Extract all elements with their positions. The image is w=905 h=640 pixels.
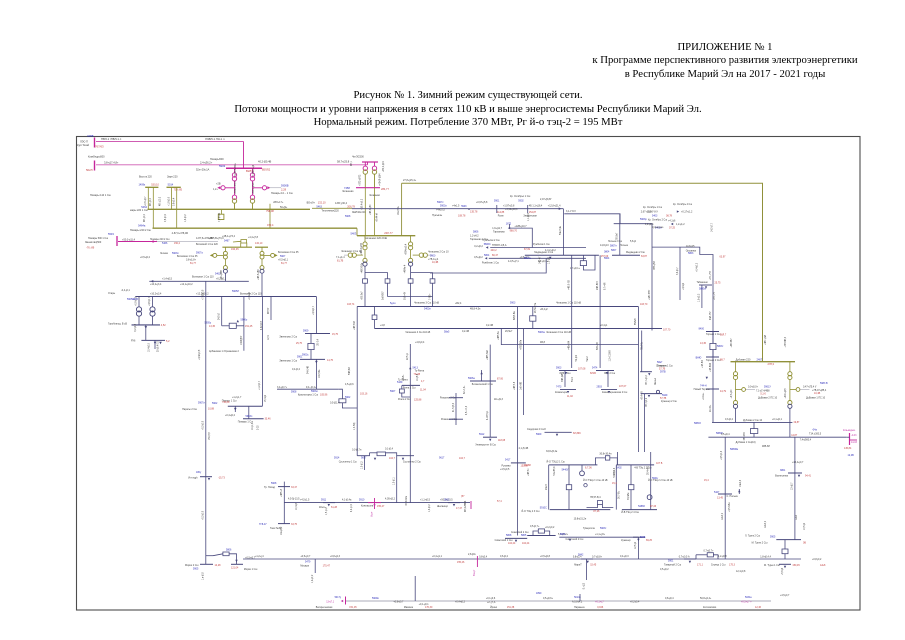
wire load W — [364, 456, 366, 470]
svg-text:0,7+j0,8+: 0,7+j0,8+ — [592, 555, 603, 558]
bus Морки-1 — [231, 563, 243, 565]
wire link 296 — [388, 296, 433, 298]
svg-text:94,41: 94,41 — [805, 474, 812, 477]
svg-text:Медведево 2 Сш: Медведево 2 Сш — [626, 251, 645, 254]
svg-text:ДуВовая 1 ПС 10: ДуВовая 1 ПС 10 — [806, 396, 826, 399]
svg-text:41,5-j5,4: 41,5-j5,4 — [453, 402, 455, 412]
arrow — [559, 207, 562, 210]
svg-text:14,75: 14,75 — [327, 359, 334, 362]
svg-text:+4,5-j0,5: +4,5-j0,5 — [500, 468, 510, 471]
svg-text:5903а: 5903а — [538, 331, 545, 334]
svg-text:0,8+j0,4: 0,8+j0,4 — [665, 597, 674, 600]
svg-text:12н3: 12н3 — [796, 514, 798, 520]
arrow load — [208, 478, 210, 480]
svg-text:1,9+j2,2: 1,9+j2,2 — [699, 293, 701, 302]
title block Рисунок — [213, 89, 723, 130]
svg-text:+4Л7-В57: +4Л7-В57 — [649, 289, 651, 300]
svg-text:Лесная: Лесная — [160, 253, 169, 255]
wire ЗМЗ load 2 — [607, 371, 609, 388]
svg-text:69,25: 69,25 — [646, 539, 653, 542]
svg-text:ЛЭВЛ-1 ЛЭ-1 л: ЛЭВЛ-1 ЛЭ-1 л — [205, 137, 225, 141]
wire Куженер-Сернур — [637, 537, 639, 559]
arrow — [677, 210, 679, 212]
wire to РУ6 — [145, 325, 147, 341]
svg-text:+1В-Вб4: +1В-Вб4 — [710, 362, 712, 372]
wire Чигашево-Сидорово-ТЭЦ — [516, 307, 518, 536]
svg-text:0,5-j0,7+: 0,5-j0,7+ — [530, 525, 540, 528]
svg-text:Шелангер: Шелангер — [437, 505, 449, 508]
svg-text:1,1-j1,4: 1,1-j1,4 — [528, 213, 530, 221]
svg-text:6Л,899: 6Л,899 — [573, 432, 581, 435]
svg-text:5961У: 5961У — [764, 385, 771, 388]
wire AT1 middle — [234, 181, 236, 195]
wire 500kV line 1 — [96, 141, 244, 143]
svg-text:4В,4-ЛВБ4: 4В,4-ЛВБ4 — [465, 500, 467, 512]
svg-text:Козьмодем.: Козьмодем. — [843, 430, 856, 432]
svg-text:9817: 9817 — [361, 456, 367, 459]
svg-text:28Л+17+: 28Л+17+ — [273, 201, 284, 204]
wire T-Dub-2 lv — [789, 409, 791, 438]
svg-text:5806С: 5806С — [484, 243, 491, 246]
autotransformer AT1 winding 500 — [232, 173, 236, 177]
svg-text:Суслонгер 2 Сш: Суслонгер 2 Сш — [403, 461, 421, 464]
svg-text:26,5н7: 26,5н7 — [505, 330, 513, 333]
svg-text:81,7В: 81,7В — [337, 259, 344, 262]
bus ЗМЗ-1 — [559, 370, 577, 372]
svg-text:0,8-j0,4: 0,8-j0,4 — [165, 214, 167, 222]
svg-text:5906а: 5906а — [468, 377, 475, 380]
wire Советский E — [545, 531, 550, 536]
svg-text:0,0+j0,0+: 0,0+j0,0+ — [748, 385, 759, 388]
svg-text:3,1-У 8-У: 3,1-У 8-У — [566, 210, 576, 213]
svg-text:597В: 597В — [660, 371, 666, 374]
breaker Арбанская — [229, 323, 236, 328]
svg-text:5907: 5907 — [390, 390, 396, 393]
wire Дубовая 2Сш-10 — [712, 421, 792, 423]
bus Морки-2 — [200, 563, 213, 565]
svg-text:135,78: 135,78 — [470, 211, 478, 214]
svg-text:Помары 10 − 1 Сш: Помары 10 − 1 Сш — [271, 192, 293, 195]
svg-text:+4В,8-ЛЗ: +4В,8-ЛЗ — [569, 280, 571, 290]
wire T-Dub-2 tap — [790, 389, 797, 391]
wire bridge E — [610, 458, 618, 465]
svg-text:44Л-757: 44Л-757 — [710, 311, 712, 320]
svg-text:132,10: 132,10 — [318, 200, 326, 204]
bus Помары-220 2Сш — [153, 227, 358, 229]
svg-text:121,04: 121,04 — [231, 567, 239, 570]
wire AT2 middle — [252, 181, 254, 195]
wire Красногорка line — [277, 388, 339, 390]
svg-text:Ружбеляк 1 Сш: Ружбеляк 1 Сш — [533, 244, 550, 246]
wire from breaker — [713, 555, 718, 559]
transformer T-Dub-2 winding t — [788, 401, 792, 405]
wire — [753, 434, 755, 438]
bus Ронга — [402, 384, 420, 386]
bus ЗМЗ-2 — [596, 370, 614, 372]
svg-text:Советский 2 Сш: Советский 2 Сш — [566, 538, 584, 541]
wire to Красногорка — [315, 359, 317, 389]
svg-text:+В04а-j9,4: +В04а-j9,4 — [405, 243, 407, 255]
wire T-Dub-2 mid — [789, 380, 791, 401]
svg-text:2407: 2407 — [757, 357, 763, 361]
svg-text:1,2+: 1,2+ — [213, 188, 218, 191]
generator G1 inner — [348, 253, 352, 257]
svg-text:63,87: 63,87 — [641, 255, 648, 258]
svg-text:0,5+j0,2: 0,5+j0,2 — [660, 568, 669, 571]
breaker Советский — [538, 529, 544, 533]
arrow load — [689, 561, 691, 563]
svg-text:5900В: 5900В — [281, 183, 289, 187]
bus Чигашево-220 — [357, 235, 415, 237]
svg-text:Чигашево: Чигашево — [342, 190, 354, 193]
svg-text:Товарный 2 Сш: Товарный 2 Сш — [664, 563, 681, 566]
svg-text:Й-О ТЭЦ 2 1 Сш: Й-О ТЭЦ 2 1 Сш — [547, 460, 565, 463]
svg-text:54-6,4В: 54-6,4В — [308, 365, 310, 374]
wire gen tap W — [356, 254, 363, 256]
bus РУ-6 — [141, 339, 165, 341]
breaker Красногорка — [339, 399, 346, 403]
svg-text:+4,5-j0,7: +4,5-j0,7 — [780, 594, 790, 597]
svg-text:7В,57-В,4: 7В,57-В,4 — [590, 496, 601, 499]
svg-text:+1В-В4: +1В-В4 — [702, 360, 704, 368]
wire Ботанич feeder — [481, 370, 483, 381]
svg-text:+В,4-4Л: +В,4-4Л — [641, 391, 643, 400]
svg-text:1н5+ЛВ: 1н5+ЛВ — [520, 381, 522, 390]
wire south trunk 110kV — [243, 558, 801, 560]
wire tick Знаменская — [527, 205, 529, 213]
transformer T-Volzh-1 winding 110 — [223, 269, 227, 273]
svg-text:5474: 5474 — [592, 366, 598, 369]
wire Медведево riser — [562, 209, 564, 256]
svg-text:13,5-j2: 13,5-j2 — [804, 522, 806, 530]
arrow tap west — [217, 186, 220, 189]
svg-text:(57: (57 — [461, 495, 465, 498]
svg-text:5903: 5903 — [444, 498, 450, 501]
svg-text:-15,73: -15,73 — [218, 477, 225, 480]
svg-text:7-ЛВ+: 7-ЛВ+ — [429, 293, 431, 300]
svg-text:25,75: 25,75 — [296, 342, 303, 345]
svg-text:12н8: 12н8 — [820, 564, 826, 567]
svg-text:5908: 5908 — [271, 482, 277, 485]
wire Ронга column — [409, 344, 411, 503]
wire load stub — [154, 340, 156, 349]
svg-text:1,8+j0,4 А: 1,8+j0,4 А — [760, 555, 771, 558]
arrow — [151, 280, 154, 283]
svg-text:Нолька: Нолька — [620, 245, 629, 247]
bus Помары-220 1Сш — [148, 208, 311, 210]
svg-text:Табашино: Табашино — [697, 281, 709, 284]
wire AT1 top — [234, 168, 236, 173]
svg-text:104,24: 104,24 — [522, 542, 530, 545]
svg-text:81,77: 81,77 — [281, 262, 288, 265]
svg-text:5903р: 5903р — [640, 218, 647, 221]
bus Куженер — [633, 536, 645, 538]
svg-text:111+j9,3: 111+j9,3 — [494, 398, 504, 401]
svg-text:ЗМЗ 2 Сш: ЗМЗ 2 Сш — [604, 372, 615, 375]
svg-text:2-32: 2-32 — [257, 425, 259, 430]
svg-text:3801: 3801 — [780, 469, 786, 472]
bus Заинск-500 section1 — [94, 138, 96, 148]
svg-text:+7В7ЛВ,4: +7В7ЛВ,4 — [785, 336, 787, 347]
svg-text:171,1: 171,1 — [697, 563, 704, 566]
wire breaker — [582, 255, 584, 260]
svg-text:Звенигово(500: Звенигово(500 — [85, 241, 102, 244]
svg-text:1,н-j0,8: 1,н-j0,8 — [203, 572, 205, 580]
bus Куженер-2 — [641, 393, 662, 395]
svg-text:54В,БЛ: 54В,БЛ — [349, 367, 351, 375]
transformer T-Chig-2 winding 220 — [409, 242, 413, 246]
svg-text:20-j0,4 0,5: 20-j0,4 0,5 — [158, 340, 160, 352]
wire tick Руэм — [496, 205, 498, 213]
breaker Суслонгер — [377, 452, 386, 456]
svg-text:61,28: 61,28 — [331, 506, 338, 509]
svg-text:-04а: -04а — [812, 429, 817, 432]
transformer T-Volzh-2 winding 220 — [260, 251, 264, 255]
svg-text:27,8+j15,4+: 27,8+j15,4+ — [403, 179, 417, 182]
wire T-Dub-1 top — [735, 362, 737, 372]
svg-text:10,8+j31,2н: 10,8+j31,2н — [574, 518, 587, 521]
svg-text:0,5+j0,6+: 0,5+j0,6+ — [543, 597, 554, 600]
bus Тр.Посад — [278, 486, 290, 488]
svg-text:+4В,50Л: +4В,50Л — [354, 321, 356, 330]
svg-text:Университет В Сш: Университет В Сш — [475, 444, 496, 447]
svg-text:+0,4+j1,1: +0,4+j1,1 — [432, 555, 443, 558]
svg-text:5,2: 5,2 — [166, 340, 170, 343]
wire to Помары1 — [248, 406, 250, 418]
svg-text:Волжская 2 Сш 35: Волжская 2 Сш 35 — [278, 251, 299, 254]
svg-text:+4В5,8н: +4В5,8н — [498, 331, 500, 340]
svg-text:Кург.Тозай: Кург.Тозай — [77, 144, 90, 147]
svg-text:ДуВовая 2 ПС 10: ДуВовая 2 ПС 10 — [758, 396, 778, 399]
bus М.Турек-2 — [776, 539, 801, 541]
wire Вознесенка column — [794, 437, 796, 539]
wire Заря to bus2 — [176, 187, 178, 228]
wire to breaker — [339, 389, 343, 399]
svg-text:107,08: 107,08 — [578, 367, 586, 370]
svg-text:10,4В: 10,4В — [432, 261, 439, 264]
wire tie — [532, 307, 534, 316]
autotransformer AT2 winding 500 — [250, 173, 254, 177]
svg-text:ЧигЭС500: ЧигЭС500 — [352, 156, 364, 159]
wire Козьмодемьянск tap — [850, 439, 858, 441]
wire corner — [695, 555, 697, 559]
bus Восток-220 — [145, 186, 158, 188]
svg-text:5807н: 5807н — [610, 244, 617, 247]
svg-text:5909в: 5909в — [372, 597, 379, 600]
bus Коминтерн-1 — [560, 389, 576, 391]
svg-text:58,7+j25,8: 58,7+j25,8 — [337, 159, 350, 163]
svg-text:Т2а-В5,4: Т2а-В5,4 — [554, 466, 556, 476]
svg-text:+ЗВ2А-ЗВ,4: +ЗВ2А-ЗВ,4 — [234, 181, 237, 195]
arrow — [210, 254, 213, 257]
arrow load — [784, 566, 786, 568]
svg-text:5902: 5902 — [345, 396, 351, 399]
svg-text:12,46: 12,46 — [755, 606, 762, 609]
svg-text:150,4: 150,4 — [267, 224, 274, 227]
svg-text:33,46: 33,46 — [265, 418, 272, 421]
svg-text:Т14,-j300,5: Т14,-j300,5 — [809, 433, 822, 436]
svg-text:+0,5+j0,2: +0,5+j0,2 — [140, 256, 151, 259]
transformer T-Volzh-2 winding 110 — [260, 269, 264, 273]
bus Табашино — [699, 284, 712, 286]
svg-text:5903: 5903 — [556, 366, 562, 369]
svg-text:1,4-j0,2: 1,4-j0,2 — [429, 504, 431, 512]
svg-text:Йрино: Йрино — [490, 606, 498, 609]
svg-text:5983 В: 5983 В — [820, 382, 828, 385]
wire reactor stub — [220, 209, 222, 214]
svg-text:80,47: 80,47 — [492, 254, 499, 257]
svg-text:5902: 5902 — [518, 200, 524, 203]
wire Мосара stub — [314, 559, 316, 573]
svg-text:+В0,2-j4,4: +В0,2-j4,4 — [383, 161, 385, 172]
svg-text:20Л-77: 20Л-77 — [384, 231, 393, 235]
wire to breaker — [784, 540, 786, 549]
arrow — [480, 372, 482, 374]
svg-text:5н12: 5н12 — [587, 356, 589, 362]
wire to breaker — [213, 554, 223, 556]
svg-text:М. Турек 2 Сш: М. Турек 2 Сш — [752, 542, 768, 545]
wire 500kV line 2 east — [257, 164, 368, 166]
wire Дубовая 1Сш-10 — [708, 436, 846, 438]
svg-text:+4В,5л: +4В,5л — [528, 468, 530, 476]
wire tie — [374, 307, 376, 316]
svg-text:11,02: 11,02 — [567, 395, 573, 398]
svg-text:0,8-j0,4: 0,8-j0,4 — [479, 555, 488, 558]
wire feeder 2 — [523, 329, 525, 416]
bus Волжская-110 — [149, 280, 249, 282]
svg-text:4,5-5j-13,5: 4,5-5j-13,5 — [288, 498, 300, 501]
svg-text:4В5-8Л: 4В5-8Л — [762, 445, 770, 448]
svg-text:108,78: 108,78 — [458, 214, 466, 217]
svg-text:59-j02: 59-j02 — [576, 354, 578, 361]
arrow load — [648, 395, 650, 397]
svg-text:+0,8+j3,7: +0,8+j3,7 — [145, 196, 147, 206]
transformer T-Chig-1 winding t — [363, 258, 367, 262]
svg-text:+400+j4,5: +400+j4,5 — [785, 388, 787, 399]
arrow — [153, 240, 156, 243]
transformer T-Dub-1 winding 220 — [733, 372, 737, 376]
symbol — [656, 390, 659, 393]
bus Козьмодемьянск — [849, 433, 851, 445]
arrow — [237, 320, 239, 322]
svg-text:Чигашево 4 Сш 110 кВ: Чигашево 4 Сш 110 кВ — [405, 331, 430, 334]
svg-text:33,8+j5,4н: 33,8+j5,4н — [546, 450, 558, 453]
svg-text:240,2: 240,2 — [491, 249, 498, 252]
svg-text:Тарханово: Тарханово — [493, 231, 505, 234]
wire ЗМЗ load — [564, 371, 566, 388]
svg-text:1,5-j1,2: 1,5-j1,2 — [326, 507, 328, 515]
svg-text:Знаменская: Знаменская — [523, 214, 537, 217]
svg-text:+4н10,5: +4н10,5 — [436, 208, 445, 211]
svg-text:Ком(бедро500: Ком(бедро500 — [88, 155, 105, 158]
bus Медведево-2 — [612, 254, 640, 256]
svg-text:4-7В4,4+j8: 4-7В4,4+j8 — [252, 164, 255, 176]
svg-text:Сернур 1 Сш: Сернур 1 Сш — [711, 563, 726, 566]
arrow load — [798, 475, 800, 477]
svg-text:5463: 5463 — [316, 205, 322, 208]
svg-text:+1,8-j0,6: +1,8-j0,6 — [169, 196, 171, 206]
svg-text:5402: 5402 — [616, 466, 622, 469]
wire transfer link — [501, 307, 638, 345]
wire link lower — [430, 258, 546, 273]
svg-text:4-ВУ,-j30,4: 4-ВУ,-j30,4 — [335, 202, 348, 205]
svg-text:+1,2+j,4: +1,2+j,4 — [255, 555, 264, 558]
svg-text:54883: 54883 — [638, 505, 645, 508]
bus Помары-500 — [226, 167, 262, 169]
bus Медведево-1 — [525, 254, 599, 256]
svg-text:5903л: 5903л — [246, 415, 253, 418]
svg-text:12,5-j2: 12,5-j2 — [635, 541, 637, 549]
svg-text:М. Турек 1 Сш: М. Турек 1 Сш — [764, 564, 780, 567]
svg-text:155,47: 155,47 — [377, 505, 385, 508]
wire join — [367, 162, 369, 165]
svg-text:+5,8-j4: +5,8-j4 — [782, 567, 784, 575]
breaker ТЭЦ2 G1 — [566, 485, 571, 490]
svg-text:87,26: 87,26 — [593, 510, 600, 513]
svg-text:62+7,4+: 62+7,4+ — [464, 385, 466, 394]
svg-text:5901: 5901 — [668, 559, 674, 562]
svg-text:50,8+j2,4+: 50,8+j2,4+ — [700, 597, 712, 600]
generator G2 outer — [419, 253, 423, 257]
breaker ТЭЦ2 top — [605, 456, 609, 460]
svg-text:40,2-j50,4В: 40,2-j50,4В — [258, 159, 272, 163]
breaker Звенигово tie — [308, 343, 314, 349]
svg-text:Кр. Октябрь 4 Сш: Кр. Октябрь 4 Сш — [673, 204, 692, 206]
arrow load — [145, 326, 148, 329]
autotransformer AT3 winding 220 — [363, 170, 367, 174]
transformer AT1 low winding hv — [232, 195, 236, 199]
svg-text:6,2-j0,8: 6,2-j0,8 — [135, 323, 137, 331]
svg-text:Чигашево 2 Сш 110 кВ: Чигашево 2 Сш 110 кВ — [546, 331, 571, 334]
bus Кожласола W — [278, 523, 290, 525]
svg-text:5903: 5903 — [510, 301, 516, 304]
transformer T-Dub-1 winding t — [733, 401, 737, 405]
wire step — [356, 228, 358, 236]
svg-text:125,88: 125,88 — [414, 399, 422, 402]
svg-text:Тр. Посад: Тр. Посад — [264, 486, 276, 489]
wire Ружбеляк 1 line — [489, 257, 586, 259]
svg-text:29-32+: 29-32+ — [710, 404, 712, 412]
bus Дубовая-220 — [731, 361, 796, 363]
svg-text:Морки 2 Сш: Морки 2 Сш — [185, 564, 198, 567]
svg-text:5440У: 5440У — [562, 469, 569, 472]
breaker Медведево — [580, 261, 586, 266]
bus Воскресенское — [345, 597, 347, 605]
wire Тепличная link — [312, 207, 352, 209]
svg-text:Воскресенская: Воскресенская — [316, 606, 333, 609]
svg-text:+4В5+8: +4В5+8 — [281, 488, 283, 497]
svg-text:159,8,8: 159,8,8 — [209, 432, 211, 440]
wire — [568, 490, 570, 510]
transformer Горобл winding hv — [136, 307, 141, 312]
svg-text:+12,1+j10,2: +12,1+j10,2 — [180, 283, 193, 286]
svg-text:4-0,5+j7,1: 4-0,5+j7,1 — [508, 260, 519, 263]
wire Тепличная-Медведево — [352, 208, 563, 210]
wire — [712, 332, 714, 344]
wire tie — [532, 321, 534, 328]
wire to breaker Сернур — [696, 554, 707, 556]
wire T-Dub-1 mid — [735, 380, 737, 401]
svg-text:Й-О ТЭЦ 2 1 Сш-10 кВ: Й-О ТЭЦ 2 1 Сш-10 кВ — [583, 479, 608, 482]
wire bottom tie line — [346, 600, 772, 602]
wire Заря to bus1 — [171, 187, 173, 209]
svg-text:+4В7+j4Л: +4В7+j4Л — [765, 334, 767, 345]
svg-text:1,9+j11,7: 1,9+j11,7 — [492, 227, 502, 230]
svg-text:1872: 1872 — [506, 223, 512, 226]
wire Чигашево 500-220 tie A — [364, 188, 366, 236]
arrow — [671, 223, 673, 225]
svg-text:5907а: 5907а — [196, 251, 203, 254]
